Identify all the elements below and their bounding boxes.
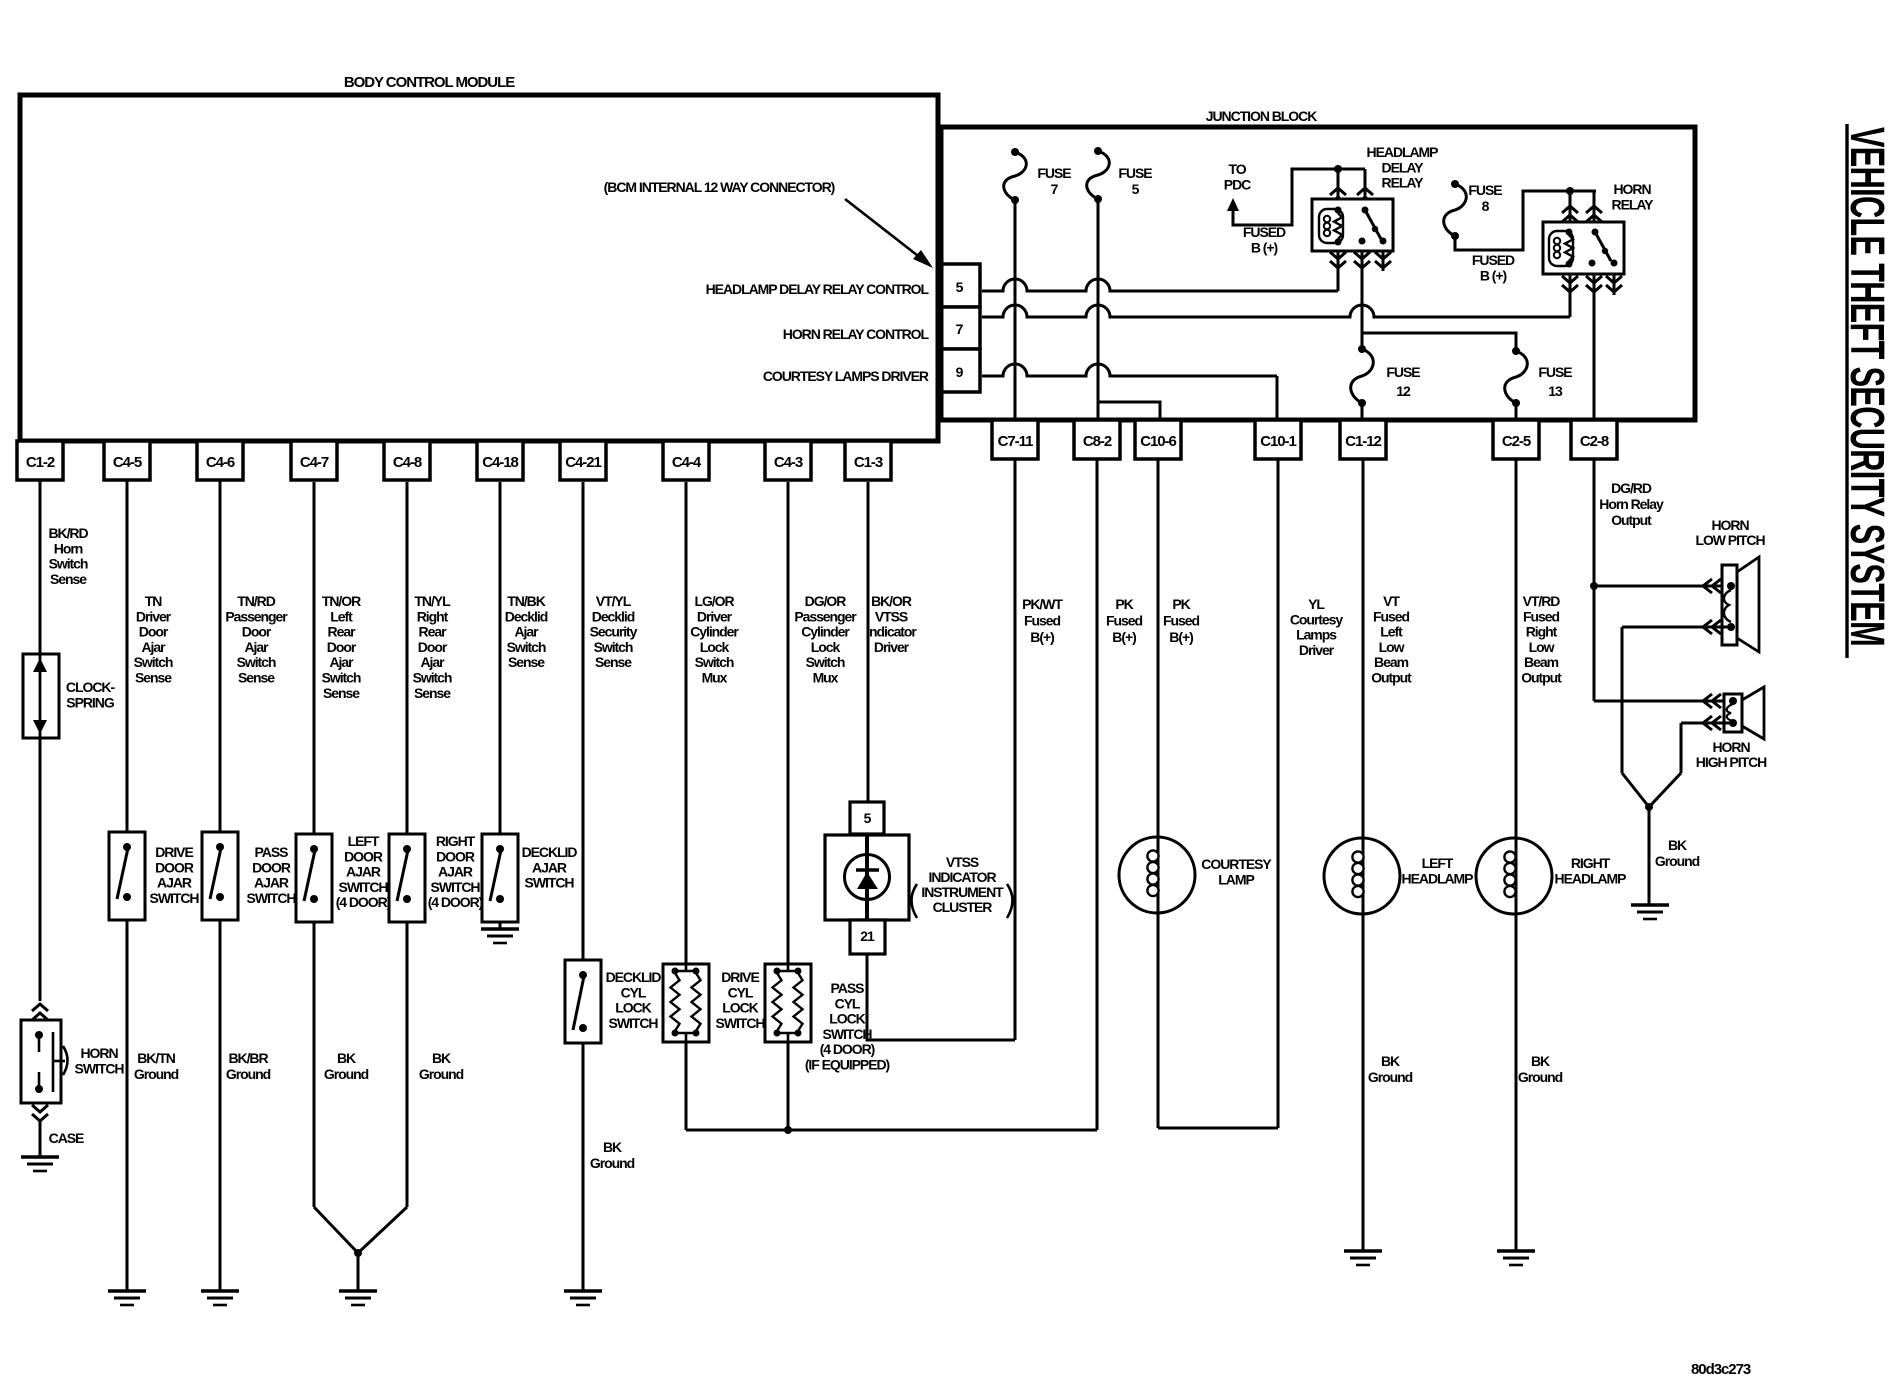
svg-text:LG/OR: LG/OR	[694, 593, 734, 609]
svg-text:INSTRUMENT: INSTRUMENT	[921, 884, 1004, 900]
wire label VT Fused Left Low Beam Output	[1371, 593, 1412, 686]
svg-text:DELAY: DELAY	[1382, 159, 1425, 175]
wire C1-2 to clockspring	[39, 480, 42, 654]
wire fuse13 to C2-5	[1515, 403, 1518, 420]
pass cyl lock switch (resistor mux)	[765, 964, 811, 1042]
svg-text:B(+): B(+)	[1169, 629, 1193, 645]
svg-text:BK: BK	[337, 1050, 356, 1066]
relay K2 coil	[1549, 229, 1573, 268]
wire label BK/TN Ground	[134, 1050, 179, 1082]
svg-text:Horn Relay: Horn Relay	[1599, 496, 1664, 512]
svg-text:B(+): B(+)	[1112, 629, 1136, 645]
svg-text:Ajar: Ajar	[329, 654, 354, 670]
svg-text:Driver: Driver	[874, 639, 910, 655]
svg-text:Switch: Switch	[594, 639, 633, 655]
svg-text:(BCM INTERNAL 12 WAY CONNECTOR: (BCM INTERNAL 12 WAY CONNECTOR)	[604, 179, 835, 195]
svg-text:Indicator: Indicator	[866, 624, 917, 640]
connector C7-11	[992, 420, 1038, 459]
svg-text:C4-3: C4-3	[774, 454, 803, 471]
pass door ajar switch	[202, 832, 238, 920]
horn switch box	[21, 1020, 68, 1103]
svg-text:FUSED: FUSED	[1243, 224, 1286, 240]
svg-text:FUSE: FUSE	[1037, 165, 1071, 181]
svg-text:Ground: Ground	[226, 1066, 271, 1082]
svg-text:B (+): B (+)	[1480, 267, 1507, 283]
svg-text:HORN: HORN	[80, 1045, 118, 1061]
svg-text:Ground: Ground	[419, 1066, 464, 1082]
connector C4-6	[197, 441, 243, 480]
wire C4-21 to decklid cyl lock switch	[582, 482, 585, 960]
svg-text:Cylinder: Cylinder	[690, 624, 739, 640]
wire horn high pitch return	[1649, 716, 1735, 807]
wire clockspring to horn switch	[39, 738, 42, 1001]
svg-text:Sense: Sense	[323, 685, 360, 701]
wire label BK Ground (right door)	[419, 1050, 464, 1082]
wire label PK/WT Fused B(+)	[1022, 596, 1063, 645]
svg-text:Mux: Mux	[813, 670, 839, 686]
svg-text:C4-8: C4-8	[393, 454, 422, 471]
wire label VT/RD Fused Right Low Beam Output	[1521, 593, 1562, 686]
svg-text:BK: BK	[1381, 1053, 1400, 1069]
Junction Block outline box	[941, 127, 1695, 420]
label RIGHT HEADLAMP	[1555, 855, 1627, 887]
svg-text:VT: VT	[1383, 593, 1400, 609]
svg-text:C4-18: C4-18	[482, 454, 518, 471]
svg-text:SWITCH: SWITCH	[431, 879, 481, 895]
BCM pin 9 box	[938, 349, 980, 392]
svg-text:CYL: CYL	[728, 984, 754, 1000]
svg-text:AJAR: AJAR	[532, 859, 567, 875]
svg-text:(4 DOOR): (4 DOOR)	[428, 894, 483, 910]
wire label PK Fused B(+) (C8-2)	[1106, 596, 1142, 645]
svg-text:Output: Output	[1521, 670, 1562, 686]
svg-text:TN/RD: TN/RD	[237, 593, 275, 609]
label CASE	[49, 1130, 84, 1146]
svg-text:HORN RELAY CONTROL: HORN RELAY CONTROL	[783, 326, 930, 342]
wire label BK Ground (left headlamp)	[1368, 1053, 1413, 1085]
label HORN HIGH PITCH	[1696, 739, 1767, 770]
wire BCM pin9 courtesy lamps driver to C10-1	[982, 364, 1277, 420]
relay K1 coil bottom lead to BCM pin 5 wire	[1330, 251, 1346, 291]
svg-text:DOOR: DOOR	[436, 848, 475, 864]
svg-text:Fused: Fused	[1024, 613, 1060, 629]
connector C4-7	[291, 441, 337, 480]
svg-text:DOOR: DOOR	[155, 859, 194, 875]
wire C2-8 DG/RD down	[1590, 459, 1598, 701]
label FUSED B (+) (horn relay feed)	[1472, 252, 1515, 283]
svg-text:C4-21: C4-21	[565, 454, 601, 471]
svg-text:TN/OR: TN/OR	[322, 593, 361, 609]
svg-text:HEADLAMP: HEADLAMP	[1555, 871, 1627, 887]
label TO PDC	[1224, 161, 1251, 192]
fuse F8	[1444, 180, 1467, 240]
wire label BK/RD Horn Switch Sense	[48, 525, 88, 587]
wire C4-6 to pass door ajar switch	[219, 480, 222, 832]
svg-text:TO: TO	[1228, 161, 1246, 177]
wire relay K1 switch top lead	[1357, 169, 1373, 204]
label VTSS INDICATOR (INSTRUMENT CLUSTER)	[912, 854, 1013, 918]
relay K2 unused contact lead	[1606, 274, 1622, 295]
ground BK/TN	[108, 1291, 146, 1305]
Body Control Module outline box	[20, 95, 938, 441]
decklid cyl lock switch	[565, 960, 601, 1043]
courtesy lamp bulb	[1119, 837, 1195, 913]
label HEADLAMP DELAY RELAY	[1367, 144, 1439, 191]
svg-text:Left: Left	[330, 608, 353, 624]
svg-text:Courtesy: Courtesy	[1290, 611, 1344, 627]
label PASS DOOR AJAR SWITCH	[247, 844, 297, 906]
svg-text:Fused: Fused	[1373, 608, 1409, 624]
wire label BK Ground (right headlamp)	[1518, 1053, 1563, 1085]
svg-text:SWITCH: SWITCH	[609, 1015, 659, 1031]
label FUSE 8	[1468, 182, 1502, 214]
label CLOCK-SPRING	[66, 679, 116, 710]
svg-text:Driver: Driver	[1299, 642, 1335, 658]
wire fuse 8 to horn relay feed	[1455, 187, 1596, 250]
horn switch connector chevrons (top)	[32, 1004, 48, 1020]
wire to horn high pitch (+)	[1594, 694, 1735, 708]
svg-text:Sense: Sense	[414, 685, 451, 701]
svg-text:Ground: Ground	[1655, 853, 1700, 869]
svg-text:Sense: Sense	[238, 670, 275, 686]
svg-text:AJAR: AJAR	[346, 864, 381, 880]
connector C1-3	[845, 441, 891, 480]
label HORN RELAY	[1612, 181, 1655, 212]
svg-text:Lamps: Lamps	[1296, 627, 1337, 643]
wire label BK/BR Ground	[226, 1050, 271, 1082]
svg-text:HORN: HORN	[1712, 739, 1750, 755]
wire left door switch to common ground	[314, 922, 358, 1253]
svg-text:Door: Door	[418, 639, 448, 655]
label LEFT DOOR AJAR SWITCH (4 DOOR)	[336, 833, 391, 910]
svg-text:DECKLID: DECKLID	[606, 969, 662, 985]
wire label DG/OR Passenger Cylinder Lock Switch Mux	[794, 593, 857, 686]
wire pass cyl lock switch down	[784, 1042, 792, 1134]
svg-text:Ground: Ground	[1368, 1069, 1413, 1085]
junction door switch grounds	[354, 1249, 362, 1291]
connector C4-3	[765, 441, 811, 480]
label DRIVE DOOR AJAR SWITCH	[150, 844, 200, 906]
label FUSE 5	[1118, 165, 1152, 197]
junction horn grounds	[1645, 803, 1653, 905]
svg-text:DECKLID: DECKLID	[522, 844, 578, 860]
svg-text:LOCK: LOCK	[615, 1000, 651, 1016]
relay K2 switched output lead to C2-8	[1586, 274, 1602, 420]
svg-text:AJAR: AJAR	[157, 875, 192, 891]
wire label TN/BK Decklid Ajar Switch Sense	[505, 593, 548, 670]
svg-text:COURTESY LAMPS DRIVER: COURTESY LAMPS DRIVER	[763, 368, 929, 384]
label HEADLAMP DELAY RELAY CONTROL (pin 5)	[706, 281, 930, 297]
svg-text:C4-6: C4-6	[206, 454, 235, 471]
svg-text:TN/YL: TN/YL	[414, 593, 451, 609]
svg-text:C4-5: C4-5	[113, 454, 142, 471]
right door ajar switch	[389, 834, 425, 922]
svg-text:CLUSTER: CLUSTER	[933, 899, 993, 915]
label (BCM INTERNAL 12 WAY CONNECTOR)	[604, 179, 835, 195]
VTSS indicator box	[825, 835, 909, 920]
wire C8-2 PK down to cyl lock switches	[1096, 459, 1099, 1130]
svg-text:SWITCH: SWITCH	[150, 890, 200, 906]
svg-text:80d3c273: 80d3c273	[1691, 1361, 1751, 1378]
label FUSE 13	[1538, 364, 1572, 399]
wire relay K2 coil top lead	[1562, 191, 1578, 222]
svg-text:SWITCH: SWITCH	[75, 1060, 125, 1076]
wire horn low pitch return	[1622, 620, 1731, 807]
svg-text:C7-11: C7-11	[998, 433, 1033, 450]
svg-text:RIGHT: RIGHT	[1571, 855, 1611, 871]
ground BK/BR	[201, 1291, 239, 1305]
svg-text:DOOR: DOOR	[344, 848, 383, 864]
svg-text:Passenger: Passenger	[794, 608, 857, 624]
wire branch to C10-6	[1098, 402, 1160, 420]
svg-text:Horn: Horn	[54, 540, 83, 556]
svg-text:C2-5: C2-5	[1502, 433, 1531, 450]
svg-text:VT/YL: VT/YL	[596, 593, 632, 609]
svg-text:LOW PITCH: LOW PITCH	[1695, 532, 1765, 548]
svg-text:Passenger: Passenger	[225, 608, 288, 624]
svg-text:TN: TN	[145, 593, 163, 609]
svg-text:HEADLAMP: HEADLAMP	[1367, 144, 1439, 160]
svg-text:AJAR: AJAR	[254, 875, 289, 891]
svg-text:BK/TN: BK/TN	[137, 1050, 175, 1066]
label HORN SWITCH	[75, 1045, 125, 1076]
svg-text:Rear: Rear	[328, 624, 357, 640]
svg-text:SWITCH: SWITCH	[339, 879, 389, 895]
svg-text:Fused: Fused	[1523, 608, 1559, 624]
wire VTSS pin 21 to PK/WT feed	[867, 954, 1015, 1040]
svg-text:PK/WT: PK/WT	[1022, 596, 1063, 612]
relay K2 coil bottom lead to BCM pin 7 wire	[1562, 274, 1578, 317]
ground BK (door switches)	[339, 1291, 377, 1305]
svg-text:C2-8: C2-8	[1580, 433, 1609, 450]
horn high pitch speaker	[1724, 687, 1764, 739]
relay K1 coil	[1319, 207, 1343, 246]
svg-text:PDC: PDC	[1224, 176, 1251, 192]
svg-text:Switch: Switch	[134, 654, 173, 670]
svg-text:Sense: Sense	[508, 654, 545, 670]
vertical title VEHICLE THEFT SECURITY SYSTEM	[1840, 127, 1888, 646]
svg-text:(4 DOOR): (4 DOOR)	[336, 894, 391, 910]
wire label BK Ground (left door)	[324, 1050, 369, 1082]
wire relay K1 coil top lead	[1330, 169, 1346, 204]
connector C4-5	[104, 441, 150, 480]
vertical title underline	[1845, 124, 1848, 658]
svg-text:Cylinder: Cylinder	[801, 624, 850, 640]
wire C4-4 to drive cyl lock switch	[685, 482, 688, 964]
svg-text:Right: Right	[1526, 624, 1558, 640]
svg-text:BK/OR: BK/OR	[871, 593, 912, 609]
svg-text:CASE: CASE	[49, 1130, 84, 1146]
label DECKLID CYL LOCK SWITCH	[606, 969, 662, 1031]
svg-text:FUSE: FUSE	[1468, 182, 1502, 198]
svg-text:HORN: HORN	[1613, 181, 1651, 197]
svg-text:Door: Door	[139, 624, 169, 640]
wire label BK Ground (horns)	[1655, 837, 1700, 869]
svg-text:Ground: Ground	[590, 1155, 635, 1171]
svg-text:Switch: Switch	[237, 654, 276, 670]
wire drive cyl lock switch down	[685, 1042, 688, 1130]
wire horn switch to case ground	[39, 1121, 42, 1157]
ground BK (horns)	[1631, 905, 1669, 919]
svg-text:DRIVE: DRIVE	[721, 969, 759, 985]
svg-text:Mux: Mux	[702, 670, 728, 686]
relay K1 headlamp delay relay box	[1312, 199, 1393, 251]
svg-text:C1-2: C1-2	[26, 454, 55, 471]
svg-text:SWITCH: SWITCH	[247, 890, 297, 906]
wire label BK Ground (decklid cyl)	[590, 1139, 635, 1171]
svg-text:C4-7: C4-7	[300, 454, 329, 471]
svg-text:COURTESY: COURTESY	[1201, 856, 1272, 872]
svg-text:CLOCK-: CLOCK-	[66, 679, 116, 695]
ground BK (decklid cyl lock)	[564, 1291, 602, 1305]
label JUNCTION BLOCK	[1206, 108, 1317, 124]
svg-text:SWITCH: SWITCH	[823, 1026, 873, 1042]
wire fuse7 to C7-11	[1014, 200, 1017, 420]
label HORN RELAY CONTROL (pin 7)	[783, 326, 930, 342]
svg-text:Switch: Switch	[322, 670, 361, 686]
wire label YL Courtesy Lamps Driver	[1290, 596, 1344, 658]
wire C4-3 to pass cyl lock switch	[787, 482, 790, 964]
wire fuse5 to C8-2	[1097, 199, 1100, 420]
svg-text:VEHICLE THEFT SECURITY SYSTEM: VEHICLE THEFT SECURITY SYSTEM	[1840, 127, 1888, 646]
svg-text:Ajar: Ajar	[141, 639, 166, 655]
svg-text:RELAY: RELAY	[1612, 196, 1655, 212]
VTSS indicator pin 5 box	[850, 802, 884, 834]
svg-text:BK: BK	[1531, 1053, 1550, 1069]
wire label BK/OR VTSS Indicator Driver	[866, 593, 917, 655]
wire C10-1 YL down	[1277, 459, 1280, 1128]
svg-text:BK: BK	[432, 1050, 451, 1066]
wire relay K1 output branch to fuse 13	[1362, 333, 1516, 351]
label FUSE 7	[1037, 165, 1071, 197]
svg-text:INDICATOR: INDICATOR	[928, 869, 996, 885]
svg-text:Switch: Switch	[49, 556, 88, 572]
relay K2 horn relay box	[1543, 222, 1624, 274]
svg-text:Switch: Switch	[507, 639, 546, 655]
svg-text:BK: BK	[603, 1139, 622, 1155]
label DECKLID AJAR SWITCH	[522, 844, 578, 891]
wire C4-7 to left door ajar switch	[313, 482, 316, 834]
part number 80d3c273	[1691, 1361, 1751, 1378]
svg-text:12: 12	[1396, 383, 1411, 399]
label FUSE 12	[1386, 364, 1420, 399]
svg-text:RIGHT: RIGHT	[436, 833, 476, 849]
svg-text:YL: YL	[1308, 596, 1325, 612]
svg-text:PK: PK	[1172, 596, 1190, 612]
VTSS indicator LED	[845, 835, 890, 920]
svg-text:DG/OR: DG/OR	[805, 593, 847, 609]
svg-text:PK: PK	[1115, 596, 1133, 612]
svg-text:DG/RD: DG/RD	[1611, 480, 1652, 496]
svg-text:HEADLAMP DELAY RELAY CONTROL: HEADLAMP DELAY RELAY CONTROL	[706, 281, 930, 297]
svg-text:CYL: CYL	[835, 995, 861, 1011]
label COURTESY LAMP	[1201, 856, 1272, 887]
svg-text:FUSE: FUSE	[1118, 165, 1152, 181]
svg-text:PASS: PASS	[255, 844, 289, 860]
wire right door switch to common ground	[358, 922, 407, 1253]
wire C1-3 to VTSS indicator pin 5	[867, 482, 870, 802]
clockspring box	[23, 654, 59, 738]
wire drive door switch to ground BK/TN	[126, 920, 129, 1291]
wire C10-6 PK down through courtesy lamp	[1157, 459, 1160, 1128]
drive cyl lock switch (resistor mux)	[663, 964, 709, 1042]
svg-text:C8-2: C8-2	[1083, 433, 1112, 450]
svg-text:VTSS: VTSS	[946, 854, 979, 870]
wire C4-18 to decklid ajar switch	[499, 482, 502, 834]
wire fuse12 to C1-12	[1361, 403, 1364, 420]
label HORN LOW PITCH	[1695, 517, 1765, 548]
left headlamp bulb	[1324, 838, 1400, 914]
svg-text:C10-6: C10-6	[1140, 433, 1176, 450]
svg-text:BODY CONTROL MODULE: BODY CONTROL MODULE	[344, 74, 515, 91]
relay K1 switched output lead	[1354, 251, 1370, 349]
label DRIVE CYL LOCK SWITCH	[716, 969, 766, 1031]
svg-text:Ground: Ground	[324, 1066, 369, 1082]
wire to horn low pitch (+)	[1594, 579, 1731, 593]
wire cyl lock switches to C8-2 PK feed	[686, 1129, 1097, 1132]
svg-text:SWITCH: SWITCH	[716, 1015, 766, 1031]
svg-text:(IF EQUIPPED): (IF EQUIPPED)	[805, 1057, 890, 1073]
svg-text:Sense: Sense	[595, 654, 632, 670]
svg-text:Driver: Driver	[697, 608, 733, 624]
connector C4-8	[384, 441, 430, 480]
svg-text:Switch: Switch	[413, 670, 452, 686]
arrow from BCM connector note to pin block	[845, 199, 933, 268]
wire BCM pin7 horn relay control	[982, 305, 1570, 317]
svg-text:Security: Security	[590, 624, 638, 640]
label PASS CYL LOCK SWITCH (4 DOOR) (IF EQUIPPED)	[805, 980, 890, 1073]
right headlamp bulb	[1476, 838, 1552, 914]
svg-text:FUSE: FUSE	[1538, 364, 1572, 380]
connector C2-5	[1493, 420, 1539, 459]
svg-text:Decklid: Decklid	[592, 608, 635, 624]
relay K1 switch	[1359, 207, 1387, 245]
svg-text:Low: Low	[1379, 639, 1405, 655]
svg-text:C1-3: C1-3	[854, 454, 883, 471]
svg-text:B (+): B (+)	[1251, 239, 1278, 255]
wire decklid ajar switch to ground	[499, 922, 502, 929]
svg-text:SPRING: SPRING	[66, 694, 115, 710]
decklid ajar switch	[482, 834, 518, 922]
label FUSED B (+) (headlamp relay feed)	[1243, 224, 1286, 255]
svg-text:PASS: PASS	[831, 980, 865, 996]
wire label VT/YL Decklid Security Switch Sense	[590, 593, 638, 670]
relay K1 unused contact lead	[1375, 251, 1391, 271]
connector C8-2	[1074, 420, 1120, 459]
svg-text:BK/RD: BK/RD	[48, 525, 88, 541]
horn switch connector chevrons (bottom)	[32, 1105, 48, 1121]
BCM pin 5 box	[938, 264, 980, 307]
svg-text:HIGH PITCH: HIGH PITCH	[1696, 754, 1767, 770]
svg-text:(4 DOOR): (4 DOOR)	[820, 1041, 875, 1057]
connector C1-2	[17, 441, 63, 480]
wire label TN/OR Left Rear Door Ajar Switch Sense	[322, 593, 361, 701]
svg-text:Ground: Ground	[134, 1066, 179, 1082]
VTSS indicator pin 21 box	[850, 920, 885, 954]
wire C7-11 PK/WT down to VTSS	[1014, 459, 1017, 1040]
svg-text:FUSE: FUSE	[1386, 364, 1420, 380]
drive door ajar switch	[109, 832, 145, 920]
ground (decklid ajar switch)	[481, 929, 519, 943]
wire pass door switch to ground BK/BR	[219, 920, 222, 1291]
svg-text:Ajar: Ajar	[514, 624, 539, 640]
svg-text:C10-1: C10-1	[1260, 433, 1296, 450]
svg-text:HEADLAMP: HEADLAMP	[1402, 871, 1474, 887]
wire C1-12 VT down through left headlamp	[1362, 459, 1365, 1251]
svg-text:Output: Output	[1371, 670, 1412, 686]
connector C1-12	[1340, 420, 1386, 459]
horn low pitch speaker	[1722, 557, 1759, 652]
